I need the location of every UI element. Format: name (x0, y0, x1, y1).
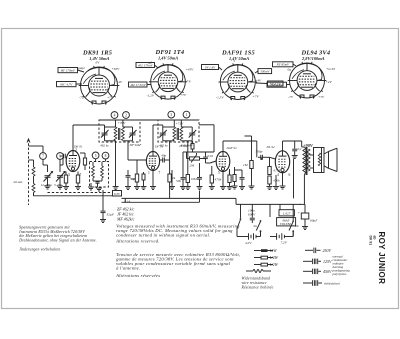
svg-text:DL 94: DL 94 (266, 145, 275, 149)
AVC resistor R7 (191, 141, 194, 152)
wire node7 to tuning (43, 160, 48, 173)
svg-text:470k: 470k (273, 179, 280, 183)
svg-text:JF·MF: JF·MF (179, 144, 189, 148)
svg-text:Altérations réservées: Altérations réservées (115, 273, 160, 278)
AVC line cap C13 (176, 152, 186, 190)
pot left wire (186, 152, 188, 159)
variable capacitor C1 tuning (41, 172, 53, 187)
wire drop C10 (240, 204, 242, 218)
svg-text:+m 63: +m 63 (326, 67, 335, 71)
grid capacitor C3 (60, 154, 65, 159)
svg-text:2,8V/100mA: 2,8V/100mA (301, 56, 325, 61)
svg-text:500mV: 500mV (260, 69, 270, 73)
pin voltage labels DK91 (78, 61, 123, 101)
svg-text:+45V: +45V (186, 68, 195, 72)
svg-text:3: 3 (170, 113, 172, 117)
svg-text:2: 2 (229, 171, 231, 175)
svg-text:g2: g2 (149, 61, 153, 65)
switch S1c (237, 218, 241, 228)
osc trimmer (93, 181, 102, 187)
svg-text:500p: 500p (256, 150, 263, 154)
ground stub C (273, 175, 279, 190)
svg-text:NF 85mV: NF 85mV (276, 63, 290, 67)
+71V label (176, 122, 185, 126)
svg-text:9b: 9b (295, 224, 299, 228)
screen resistor R3 (80, 153, 87, 170)
svg-text:+4V: +4V (326, 80, 333, 84)
svg-text:32µF: 32µF (107, 213, 115, 217)
svg-text:+4V: +4V (255, 79, 262, 83)
svg-text:+4V: +4V (116, 80, 123, 84)
pin digits DAF91 (218, 171, 231, 175)
svg-text:5: 5 (218, 171, 220, 175)
bypass resistor R2 (75, 172, 81, 190)
svg-text:450V: 450V (323, 269, 332, 274)
svg-text:HF 170mV: HF 170mV (60, 69, 76, 73)
svg-text:50p: 50p (130, 177, 135, 181)
svg-text:1,4V 50mA: 1,4V 50mA (229, 56, 249, 61)
label box DL94 left2 (267, 82, 290, 88)
svg-text:+70V: +70V (118, 121, 127, 125)
wire battery left (237, 228, 243, 237)
battery box labels (279, 210, 294, 216)
pin digits DF91 (148, 171, 161, 175)
legend cap 450V (303, 269, 332, 275)
node 3 (168, 111, 175, 118)
IF freq labels (116, 207, 135, 222)
svg-text:2M: 2M (190, 164, 195, 168)
label box DF91 grid (136, 63, 158, 69)
svg-text:3: 3 (68, 173, 70, 177)
IF1 secondary out wire (127, 141, 129, 160)
DF91 grid cap C5 (160, 154, 167, 163)
IF2 secondary winding (180, 120, 192, 141)
svg-text:60µF: 60µF (310, 219, 318, 223)
svg-text:1: 1 (186, 113, 188, 117)
svg-text:470k: 470k (215, 178, 222, 182)
wire drop battery area (269, 204, 271, 217)
output transformer T1 (302, 147, 310, 178)
svg-text:Spannungswerte gemessen mit: Spannungswerte gemessen mit (19, 226, 70, 230)
wire cap to DL94 grid (266, 157, 276, 159)
wire drop to L627 (279, 204, 281, 209)
IF1 secondary winding (122, 120, 133, 141)
IF2 secondary trimmer cap (189, 127, 197, 141)
osc coil L3 (101, 162, 104, 181)
pin voltage labels DL94 (288, 67, 336, 99)
anode load R12 to +rail (243, 136, 255, 189)
svg-text:à l'antenne.: à l'antenne. (116, 266, 140, 271)
ground stub B (169, 170, 175, 190)
node 5 (92, 152, 99, 162)
battery B1 4.5V (242, 231, 261, 246)
variable capacitor C2 osc (54, 172, 65, 187)
node 7 (40, 153, 47, 160)
svg-text:condenser turned in without si: condenser turned in without signal on ae… (116, 233, 210, 238)
svg-text:1M: 1M (243, 163, 248, 167)
ground ant coil (33, 193, 35, 197)
DF91 anode wire to IF2 (153, 125, 163, 152)
English reserve note (115, 239, 160, 244)
tube DL94 (266, 145, 290, 173)
filament rail mid (122, 198, 237, 204)
pin digits DL94 (277, 173, 291, 177)
svg-text:DF·DAF: DF·DAF (129, 143, 143, 147)
node 2 (123, 112, 130, 119)
bypass cap C12 (125, 170, 135, 190)
ground stub A (88, 183, 94, 190)
top supply rail left (99, 119, 199, 121)
screen bypass cap C8 (292, 141, 302, 159)
IF1 primary trimmer cap (101, 125, 109, 141)
svg-text:6: 6 (289, 173, 291, 177)
svg-text:Alterations reserved.: Alterations reserved. (115, 239, 160, 244)
tube socket diagram DL94 3V4 (288, 50, 331, 99)
cap C16 (260, 157, 262, 160)
filament rail right (236, 203, 301, 205)
switch S1a (254, 220, 262, 236)
DF91 cathode ground (150, 171, 156, 190)
label box DAF91 left (202, 65, 223, 71)
label box OSC level DK91 (57, 82, 83, 88)
svg-text:50n: 50n (176, 179, 181, 183)
svg-text:+7V: +7V (107, 96, 114, 100)
IF1 secondary trimmer cap (129, 127, 137, 141)
coupling cap C7 (256, 150, 267, 160)
svg-text:elektrolytisch: elektrolytisch (324, 282, 341, 286)
grid resistor R13 (268, 157, 280, 174)
IF transformer 2 (dashed can) (158, 120, 199, 142)
DL94 cathode ground (280, 173, 286, 189)
dial lamp box (113, 191, 132, 205)
IF2 label (159, 144, 194, 148)
DF91 grid resistor R4 (128, 160, 146, 190)
svg-text:L 627: L 627 (282, 212, 291, 216)
JF/MF label (179, 144, 189, 148)
svg-text:g4g2: g4g2 (78, 66, 85, 70)
svg-text:462 kc: 462 kc (159, 144, 168, 148)
IF1 core (119, 128, 120, 140)
IF2 primary winding (163, 120, 176, 141)
svg-text:40p: 40p (161, 154, 166, 158)
svg-text:6: 6 (59, 155, 61, 159)
node 4 (111, 112, 118, 119)
IF2 diode feed wire (199, 125, 214, 152)
svg-text:1/2W: 1/2W (270, 262, 279, 267)
svg-text:1: 1 (148, 171, 150, 175)
French note text (116, 252, 240, 271)
svg-text:MF 462k/c: MF 462k/c (116, 217, 135, 222)
label box HF level DK91 (58, 68, 84, 73)
tube DAF91 (216, 146, 237, 172)
legend wirewound text (241, 277, 274, 290)
svg-text:7: 7 (159, 171, 161, 175)
coupling cap C6 (203, 152, 214, 163)
svg-text:DK 91: DK 91 (369, 236, 373, 246)
ground under osc (96, 188, 102, 191)
node 1 (183, 111, 190, 118)
svg-text:1/4W: 1/4W (270, 255, 279, 260)
DF91 screen resistor R5 (141, 172, 147, 190)
svg-text:+65V: +65V (112, 67, 121, 71)
svg-text:2: 2 (75, 148, 77, 152)
IF transformer 1 (dashed can) (99, 120, 140, 142)
node 8 (102, 152, 109, 161)
IF1 primary winding (105, 120, 117, 141)
svg-text:a: a (234, 59, 236, 63)
wire DAF anode tap (235, 169, 243, 171)
cap C10 100n (248, 204, 256, 223)
label box DAF91 right1 (255, 69, 272, 74)
bypass R11 (232, 167, 238, 189)
svg-text:2: 2 (125, 114, 127, 118)
svg-text:Résistance bobinée: Résistance bobinée (241, 286, 274, 290)
label box DAF91 right2 (256, 81, 283, 87)
legend cap electrolytic (303, 280, 341, 286)
svg-text:4: 4 (277, 173, 279, 177)
legend cap 125V (303, 259, 332, 265)
svg-text:int.ant: int.ant (14, 180, 24, 184)
cap C15 (239, 170, 245, 190)
oscillator dashed box (90, 162, 109, 188)
IF2 core (177, 128, 178, 140)
wire node6 to grid cap (60, 158, 63, 172)
IF2 primary trimmer cap (159, 125, 167, 141)
svg-text:1,4V 50mA: 1,4V 50mA (158, 56, 178, 61)
IF2 primary return wire (169, 141, 171, 160)
IF2 secondary out wire (187, 141, 189, 159)
speaker magnet lines (318, 148, 321, 173)
svg-text:VOLTBL.: VOLTBL. (280, 222, 292, 226)
chassis rail dashdot (tuning gang link) (48, 192, 113, 194)
battery B2 7.2V (270, 231, 293, 246)
cap C14 (197, 163, 203, 190)
DAF91 cathode ground (220, 172, 226, 190)
svg-text:0g: 0g (288, 68, 292, 72)
svg-text:5: 5 (95, 154, 97, 158)
tube socket diagram DAF91 1S5 (219, 50, 258, 101)
ground under C2 (57, 186, 63, 189)
French reserve note (115, 273, 160, 278)
ferrite antenna coil L1 (29, 160, 36, 196)
svg-text:+7V: +7V (180, 93, 187, 97)
legend cap 450V side text (332, 265, 351, 276)
filament rail left (34, 195, 113, 197)
return rail (103, 190, 200, 202)
svg-text:Änderungen vorbehalten: Änderungen vorbehalten (19, 246, 61, 251)
grid resistor R14 (267, 176, 281, 190)
antenna coupling wire (29, 146, 44, 153)
svg-text:+g: +g (187, 79, 191, 83)
svg-text:250V: 250V (323, 248, 332, 253)
tube DF91 (IF amplifier) (146, 145, 163, 171)
volume potentiometer P1 (187, 153, 203, 168)
tube socket diagram DK91 1R5 (79, 50, 120, 105)
svg-text:polystyrène: polystyrène (332, 272, 347, 276)
wire DK91 anode to IF1 (73, 125, 105, 151)
detector load R9 (209, 166, 222, 190)
grid leak R8 (185, 159, 197, 190)
right vertical wire (293, 159, 295, 199)
svg-text:600V: 600V (248, 213, 256, 217)
svg-text:9a: 9a (254, 224, 258, 228)
German reserve note (19, 246, 61, 251)
antenna dash-dot line (14, 139, 31, 205)
legend resistor 1/2W (254, 262, 279, 267)
tube DK91 (converter) (66, 145, 83, 172)
wire transformer bottom down (300, 178, 305, 204)
svg-text:10M: 10M (191, 177, 197, 181)
pin voltage labels DAF91 (216, 59, 262, 101)
svg-text:Widerstandsband: Widerstandsband (242, 277, 271, 281)
svg-text:1kW: 1kW (270, 248, 278, 253)
legend cap 250V (305, 248, 332, 254)
node 6 (57, 153, 64, 160)
legend wirewound resistor (246, 270, 271, 273)
wire AVC horizontal (183, 151, 214, 153)
title ROY JUNIOR (rotated) (377, 232, 386, 285)
legend resistor 1/8W (254, 248, 277, 253)
legend cap 125V side text (333, 255, 349, 266)
svg-text:7: 7 (42, 155, 44, 159)
legend resistor 1/4W (254, 255, 279, 260)
DF91 AVC resistor R6 (167, 160, 176, 198)
anode resistor R10 (227, 169, 233, 190)
svg-text:+71V: +71V (176, 122, 185, 126)
IF1 labels (100, 143, 142, 148)
IF1 primary return wire (113, 141, 119, 190)
svg-text:+7V: +7V (253, 95, 260, 99)
svg-text:7: 7 (80, 173, 82, 177)
wire pot wiper to DAF grid (202, 159, 216, 164)
svg-text:ROY JUNIOR: ROY JUNIOR (377, 232, 386, 285)
pin digits DK91 (68, 148, 82, 177)
speaker (310, 148, 337, 173)
subtitle ab DK 91 (rotated) (369, 236, 377, 246)
IF1 +70V label (118, 121, 127, 125)
ground under C1 (45, 186, 51, 189)
DAF91 anode loop wire (223, 141, 257, 157)
svg-text:DAF 91: DAF 91 (226, 146, 238, 150)
svg-text:462 kc: 462 kc (100, 144, 109, 148)
switch S1b (289, 204, 299, 236)
label box DL94 left1 (273, 62, 297, 67)
filament bypass cap C9 (100, 196, 115, 223)
svg-text:+7V: +7V (318, 95, 325, 99)
DL94 anode rail (283, 141, 302, 151)
svg-text:+: + (298, 211, 300, 215)
tube socket diagram DF91 1T4 (149, 49, 187, 100)
svg-text:125V: 125V (323, 259, 332, 264)
svg-text:8: 8 (105, 154, 107, 158)
cathode resistor R1 (63, 172, 69, 190)
+90V label (303, 143, 314, 148)
English note text (116, 223, 240, 237)
pin voltage labels DF91 (147, 61, 195, 99)
osc coil L2 (92, 162, 95, 181)
svg-text:wire resistance: wire resistance (242, 281, 267, 285)
svg-text:1,4V 50mA: 1,4V 50mA (89, 56, 109, 61)
electrolytic C11 (298, 204, 319, 229)
German note text (18, 226, 97, 244)
label box DF91 input (129, 82, 152, 88)
svg-text:4: 4 (114, 114, 116, 118)
